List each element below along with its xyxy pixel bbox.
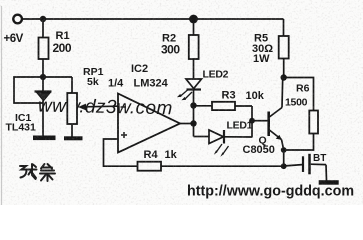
resistor R2 <box>161 22 199 59</box>
wire emitter to rail <box>283 150 285 166</box>
input terminal <box>13 15 22 24</box>
wire loop right edge <box>251 106 253 138</box>
ground (BT) <box>319 180 339 185</box>
wire wiper to op-amp inverting input <box>84 105 118 108</box>
resistor R5 <box>252 19 289 78</box>
node R2 top <box>189 15 198 24</box>
wire top rail <box>22 18 283 20</box>
wire non-inverting input to R4 <box>104 139 138 166</box>
ground (RP1) <box>64 136 83 140</box>
LED1 <box>194 120 253 157</box>
resistor R4 <box>138 149 178 171</box>
node output <box>190 120 196 126</box>
IC1 TL431 <box>6 77 52 136</box>
op-amp U1 IC2 1/4 LM324 <box>108 63 180 153</box>
wire bottom feedback rail <box>161 165 284 167</box>
LED2 <box>177 59 229 100</box>
transistor Q1 C8050 <box>243 78 284 156</box>
resistor R3 <box>194 90 265 111</box>
wire node row to RP1 <box>43 76 72 78</box>
ground (TL431) <box>33 136 56 141</box>
node R1 top <box>40 16 46 22</box>
node R3/LED2 junction <box>190 102 196 108</box>
sounder BT <box>303 153 327 181</box>
node base junction <box>249 118 255 124</box>
node R1 bottom <box>40 74 46 80</box>
wire TL431 ref loop <box>14 77 43 103</box>
wire op-amp output <box>180 123 194 125</box>
scan edge line <box>1 6 3 205</box>
resistor R6 <box>284 78 318 151</box>
wire LED2 to output node <box>193 91 195 137</box>
node emitter <box>281 147 287 153</box>
watermark www.dz3w.com <box>38 95 173 119</box>
signature 张拳 <box>20 164 55 181</box>
resistor R1 <box>39 19 72 77</box>
node R5 bottom <box>281 74 287 80</box>
potentiometer RP1 <box>67 66 103 137</box>
wire to transistor base <box>252 120 268 122</box>
node rail <box>281 163 287 169</box>
wire rail to BT <box>284 165 302 166</box>
scan noise overlay <box>0 0 1 1</box>
